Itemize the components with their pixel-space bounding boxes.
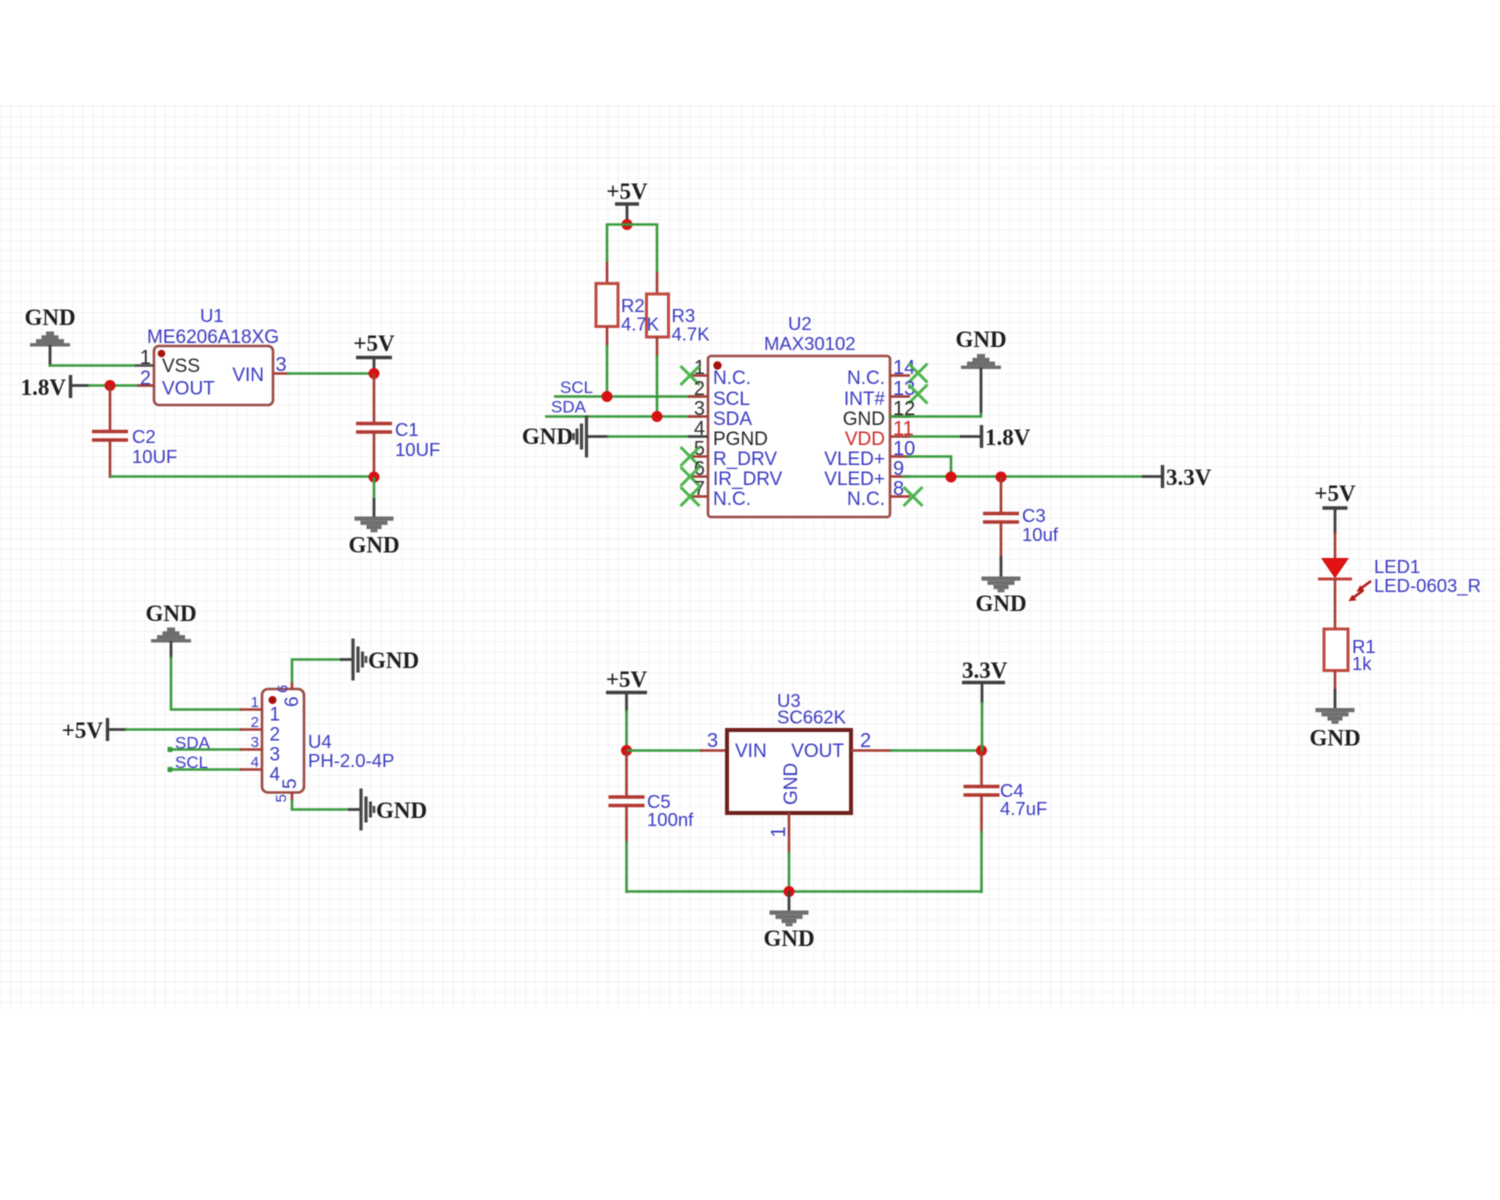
wire U3 pin 1 to rail	[788, 852, 791, 892]
svg-text:U2: U2	[788, 313, 812, 334]
svg-text:2: 2	[860, 730, 871, 752]
svg-text:LED1: LED1	[1374, 556, 1420, 577]
wire U3 VOUT to 3.3V node	[890, 749, 983, 752]
power flag GND (below C1)	[348, 517, 399, 558]
wire SDA to U4 pin 3	[168, 747, 243, 752]
svg-text:6: 6	[282, 696, 303, 707]
svg-text:MAX30102: MAX30102	[764, 333, 856, 354]
IC U1 ME6206A18XG	[147, 305, 279, 405]
svg-text:VLED+: VLED+	[824, 469, 885, 490]
U2 pin 2 SCL	[688, 378, 750, 410]
svg-text:3.3V: 3.3V	[962, 658, 1008, 683]
wire LED1 to R1	[1334, 579, 1337, 630]
power flag GND (below C3)	[975, 577, 1026, 617]
svg-text:INT#: INT#	[844, 389, 886, 410]
U3 pin 1 GND stub	[768, 813, 790, 854]
svg-text:+5V: +5V	[353, 331, 395, 356]
svg-text:U4: U4	[308, 731, 332, 752]
svg-text:SCL: SCL	[713, 389, 750, 410]
U2 pin 12 GND	[843, 398, 915, 430]
net label SDA (U4)	[175, 734, 211, 753]
svg-text:ME6206A18XG: ME6206A18XG	[147, 327, 279, 348]
U2 pin 11 VDD	[845, 418, 914, 450]
svg-text:IR_DRV: IR_DRV	[713, 469, 783, 490]
node junction VLED	[946, 472, 957, 483]
wire +5V to LED1	[1334, 532, 1337, 559]
node junction +5V R2 R3	[622, 219, 633, 230]
net flag 1.8V (U2 VDD)	[910, 425, 1031, 450]
svg-text:5: 5	[273, 794, 290, 802]
power flag GND (PGND, bars style)	[522, 416, 587, 458]
node junction SDA / R3	[652, 411, 663, 422]
svg-text:100nf: 100nf	[647, 809, 694, 830]
wire GND to U4 pin 1	[171, 641, 242, 710]
svg-text:3.3V: 3.3V	[1166, 465, 1212, 490]
U1 pin 2 VOUT	[137, 368, 154, 390]
U2 pin 3 SDA	[688, 398, 752, 430]
svg-text:N.C.: N.C.	[713, 489, 751, 510]
svg-text:VIN: VIN	[232, 365, 264, 386]
svg-text:3: 3	[707, 730, 718, 752]
svg-text:GND: GND	[522, 424, 573, 449]
power flag GND (U3)	[763, 911, 814, 952]
node junction rail / GND	[784, 886, 795, 897]
svg-text:GND: GND	[975, 591, 1026, 616]
node junction 3.3V / C4	[976, 745, 987, 756]
U2 pin 4 PGND	[688, 418, 768, 450]
power flag GND (U4 pin 1)	[145, 601, 196, 643]
svg-text:GND: GND	[781, 763, 802, 805]
U2 pin 14 N.C.	[847, 357, 928, 389]
wire +5V to R2 and R3 tops	[607, 225, 657, 274]
svg-text:8: 8	[893, 478, 904, 500]
wire GND to U1 pin 1	[49, 345, 136, 367]
svg-text:3: 3	[276, 354, 287, 376]
svg-text:4: 4	[694, 418, 705, 440]
U4 pin 3	[240, 734, 280, 766]
wire bottom ground rail	[627, 890, 982, 893]
power flag 3.3V (U3)	[962, 658, 1008, 704]
svg-text:1: 1	[270, 705, 281, 726]
wire +5V down to C5 node	[625, 710, 628, 752]
node junction at 1.8V / C2	[105, 380, 116, 391]
net flag 3.3V (right)	[1163, 465, 1212, 490]
node junction SCL / R2	[602, 391, 613, 402]
svg-text:N.C.: N.C.	[713, 368, 751, 389]
wire SCL to U4 pin 4	[168, 767, 243, 772]
svg-text:4.7K: 4.7K	[672, 324, 711, 345]
U2 pin 5 R_DRV	[681, 438, 778, 470]
resistor R3 4.7K	[647, 272, 669, 357]
node junction C3 top	[996, 472, 1007, 483]
wire R3 bottom to SDA net	[656, 355, 659, 417]
power flag +5V (U4 pin 2)	[62, 718, 127, 743]
wire C1 to GND	[373, 477, 376, 517]
svg-text:+5V: +5V	[606, 179, 648, 204]
wire R1 to GND	[1334, 671, 1337, 710]
svg-text:1k: 1k	[1352, 653, 1372, 674]
svg-text:10UF: 10UF	[395, 439, 440, 460]
wire rail to GND	[788, 892, 791, 912]
wire U4 pin 5 to GND bars	[292, 800, 362, 810]
label R2 4.7K	[621, 295, 660, 335]
svg-text:+5V: +5V	[62, 718, 104, 743]
svg-text:GND: GND	[376, 798, 427, 823]
svg-text:GND: GND	[1309, 726, 1360, 751]
wire SDA to U2 pin 3	[545, 415, 701, 418]
svg-text:C3: C3	[1022, 505, 1046, 526]
svg-text:PGND: PGND	[713, 429, 768, 450]
svg-text:1.8V: 1.8V	[985, 425, 1031, 450]
svg-text:1.8V: 1.8V	[21, 375, 67, 400]
svg-text:3: 3	[694, 398, 705, 420]
svg-text:N.C.: N.C.	[847, 489, 885, 510]
LED LED1 LED-0603_R	[1318, 556, 1481, 601]
svg-text:LED-0603_R: LED-0603_R	[1374, 575, 1481, 597]
svg-text:+5V: +5V	[1314, 481, 1356, 506]
svg-text:2: 2	[140, 368, 151, 390]
wire GND bars to U2 pin 4	[587, 435, 701, 438]
svg-text:VIN: VIN	[735, 741, 767, 762]
net label SCL (U4)	[175, 753, 208, 772]
svg-text:1: 1	[140, 347, 151, 369]
label R3 4.7K	[672, 305, 711, 345]
U2 pin 9 VLED+	[824, 458, 910, 490]
svg-text:1: 1	[251, 694, 259, 711]
svg-text:SDA: SDA	[713, 409, 752, 430]
U4 pin 6 (top)	[275, 681, 304, 707]
power flag GND (below R1)	[1309, 708, 1360, 751]
wire C5 to bottom rail	[625, 841, 628, 893]
wire U2 pin 9 VLED+ to 3.3V	[902, 475, 1161, 478]
power flag +5V (U3)	[606, 667, 648, 712]
wire C4 to bottom rail	[980, 831, 983, 893]
power flag +5V (U1)	[353, 331, 395, 374]
power flag GND (U1 VSS)	[24, 305, 75, 347]
IC U3 SC662K	[727, 690, 851, 813]
svg-text:VLED+: VLED+	[824, 449, 885, 470]
net flag 1.8V (left)	[21, 375, 90, 400]
U1 pin 1 VSS	[135, 347, 154, 369]
svg-text:2: 2	[694, 378, 705, 400]
power flag +5V (LED)	[1314, 481, 1356, 534]
IC U2 MAX30102	[708, 313, 890, 517]
wire SCL to U2 pin 2	[554, 395, 701, 398]
svg-text:2: 2	[251, 714, 259, 731]
net label SCL	[560, 378, 593, 397]
svg-text:GND: GND	[368, 648, 419, 673]
svg-text:SDA: SDA	[551, 398, 587, 417]
U2 pin 1 N.C.	[681, 357, 752, 389]
capacitor C5	[609, 751, 695, 844]
node junction +5V / C1	[369, 368, 380, 379]
U2 pin 6 IR_DRV	[681, 458, 783, 490]
svg-text:GND: GND	[145, 601, 196, 626]
U3 pin 2 VOUT stub	[851, 730, 892, 752]
U4 pin 1	[240, 694, 280, 726]
svg-text:6: 6	[275, 685, 292, 693]
U2 pin 10 VLED+	[824, 438, 915, 470]
svg-text:GND: GND	[348, 533, 399, 558]
power flag +5V (R2 R3)	[606, 179, 648, 226]
U2 pin 13 INT#	[844, 378, 928, 410]
svg-text:C1: C1	[395, 419, 419, 440]
wire U2 pin 10 VLED+	[906, 457, 951, 479]
svg-text:3: 3	[251, 734, 259, 751]
wire +5V node to U3 VIN	[627, 749, 703, 752]
node junction +5V / C5	[621, 745, 632, 756]
capacitor C4	[964, 751, 1048, 834]
capacitor C3	[983, 477, 1059, 557]
net label SDA	[551, 398, 587, 417]
svg-text:GND: GND	[843, 409, 885, 430]
U2 pin 8 N.C.	[847, 478, 923, 510]
wire C2 to C1 bottom rail	[110, 475, 375, 478]
svg-text:+5V: +5V	[606, 667, 648, 692]
resistor R1 1k	[1324, 629, 1376, 674]
wire U1 VIN to +5V node	[287, 372, 375, 375]
svg-text:5: 5	[280, 778, 301, 789]
node junction C1 bottom	[369, 472, 380, 483]
svg-text:4.7K: 4.7K	[621, 314, 660, 335]
U3 pin 3 VIN stub	[700, 730, 727, 752]
svg-text:U1: U1	[200, 305, 224, 326]
svg-text:SCL: SCL	[560, 378, 593, 397]
U4 pin 2	[240, 714, 280, 746]
U2 pin 7 N.C.	[681, 478, 752, 510]
svg-text:1: 1	[768, 826, 790, 837]
svg-text:3: 3	[270, 745, 281, 766]
svg-text:4: 4	[270, 765, 281, 786]
svg-text:4.7uF: 4.7uF	[1000, 798, 1047, 819]
wire U4 pin 6 to GND bars	[292, 660, 354, 683]
U4 pin 5 (bottom)	[273, 778, 301, 802]
capacitor C2	[92, 386, 177, 479]
svg-text:VOUT: VOUT	[162, 379, 215, 400]
wire C3 to GND	[1000, 556, 1003, 577]
svg-text:10uf: 10uf	[1022, 524, 1059, 545]
svg-text:SC662K: SC662K	[777, 707, 847, 728]
power flag GND (U4 bottom right, bars style)	[361, 789, 427, 831]
wire U2 GND pin 12 to GND flag	[889, 368, 982, 417]
wire +5V to U4 pin 2	[125, 728, 242, 731]
svg-text:R_DRV: R_DRV	[713, 449, 777, 470]
svg-text:VOUT: VOUT	[791, 741, 844, 762]
svg-text:GND: GND	[763, 926, 814, 951]
svg-text:PH-2.0-4P: PH-2.0-4P	[308, 750, 394, 771]
svg-text:N.C.: N.C.	[847, 368, 885, 389]
svg-text:4: 4	[251, 754, 259, 771]
svg-text:C2: C2	[132, 426, 156, 447]
svg-text:VDD: VDD	[845, 429, 885, 450]
power flag GND (U2 pin 12)	[955, 327, 1006, 369]
wire 3.3V to C4 node	[981, 702, 984, 752]
connector U4 PH-2.0-4P	[262, 689, 394, 793]
U1 pin 3 VIN	[273, 354, 290, 376]
svg-text:GND: GND	[24, 305, 75, 330]
capacitor C1	[356, 374, 440, 479]
resistor R2 4.7K	[596, 262, 618, 347]
svg-text:VSS: VSS	[162, 356, 200, 377]
svg-text:10UF: 10UF	[132, 446, 177, 467]
power flag GND (U4 top right, bars style)	[353, 639, 419, 681]
wire R2 bottom to SCL net	[606, 345, 609, 397]
svg-text:GND: GND	[955, 327, 1006, 352]
svg-text:2: 2	[270, 725, 281, 746]
U4 pin 4	[240, 754, 281, 786]
wire 1.8V to U1 pin 2	[88, 384, 152, 387]
